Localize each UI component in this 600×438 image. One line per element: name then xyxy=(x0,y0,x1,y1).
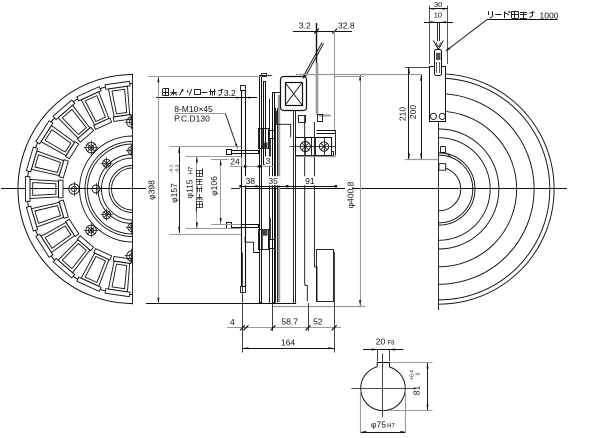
svg-text:8-M10×45: 8-M10×45 xyxy=(174,104,213,114)
svg-text:φ115: φ115 xyxy=(184,179,194,198)
svg-text:24: 24 xyxy=(230,157,240,167)
svg-text:52: 52 xyxy=(313,317,323,327)
svg-text:φ157: φ157 xyxy=(169,183,179,203)
svg-text:0: 0 xyxy=(416,372,422,375)
svg-text:4: 4 xyxy=(230,317,235,327)
svg-text:3.2: 3.2 xyxy=(224,88,236,98)
svg-text:35: 35 xyxy=(268,176,278,186)
svg-text:91: 91 xyxy=(305,176,315,186)
svg-text:3: 3 xyxy=(266,156,271,166)
svg-text:φ75: φ75 xyxy=(371,420,386,430)
svg-text:30: 30 xyxy=(434,0,442,9)
svg-text:32.8: 32.8 xyxy=(338,20,355,30)
svg-text:F8: F8 xyxy=(387,340,395,346)
svg-text:210: 210 xyxy=(398,107,408,121)
svg-text:20: 20 xyxy=(376,336,386,346)
svg-text:H7: H7 xyxy=(387,424,395,430)
svg-text:P.C.D130: P.C.D130 xyxy=(174,114,210,124)
svg-text:φ398: φ398 xyxy=(147,180,157,200)
svg-text:164: 164 xyxy=(281,338,295,348)
svg-text:-0.3: -0.3 xyxy=(174,164,180,173)
svg-text:81: 81 xyxy=(412,386,422,396)
svg-text:200: 200 xyxy=(408,105,418,119)
svg-text:-0.1: -0.1 xyxy=(169,164,175,173)
svg-text:φ400.8: φ400.8 xyxy=(345,181,355,208)
svg-text:φ106: φ106 xyxy=(209,176,219,196)
svg-text:3.2: 3.2 xyxy=(299,21,311,31)
svg-text:58.7: 58.7 xyxy=(281,317,298,327)
svg-text:10: 10 xyxy=(434,11,442,20)
svg-text:38: 38 xyxy=(246,176,256,186)
svg-text:H7: H7 xyxy=(188,166,194,174)
